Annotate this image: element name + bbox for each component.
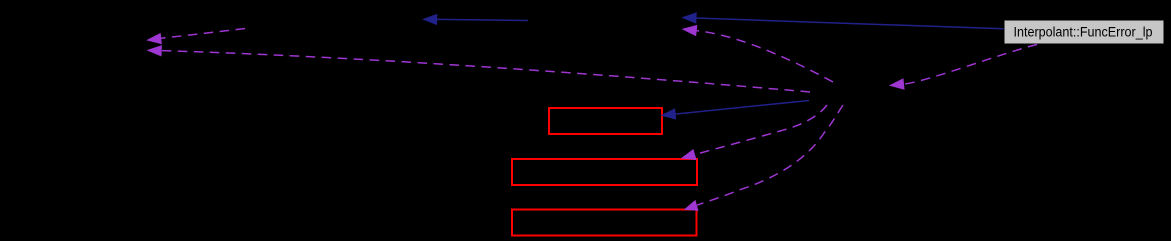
inheritance edge: hidden center node -> red box R1 (blue solid) <box>661 101 810 120</box>
usage edge: hidden center node -> hidden node2 (purple dashed) <box>682 25 833 82</box>
node: red box R3 (truncated class) <box>512 210 697 236</box>
inheritance edge: FuncError_lp -> hidden node2 (blue solid) <box>681 12 1003 29</box>
node: red box R2 (truncated class) <box>512 159 697 185</box>
svg-text:Interpolant::FuncError_lp: Interpolant::FuncError_lp <box>1014 25 1153 40</box>
node: Interpolant::FuncError_lp (grey current-class box) <box>1004 20 1164 44</box>
usage edge: hidden center node -> red box R3 (purple dashed) <box>684 105 843 211</box>
inheritance edge: hidden node2 -> hidden node1 (blue solid) <box>422 14 528 25</box>
usage edge: hidden center node -> hidden far-left node (purple dashed, long) <box>147 45 811 92</box>
node: red box R1 (truncated class) <box>549 108 662 134</box>
usage edge: hidden center node -> red box R2 (purple dashed) <box>681 105 827 160</box>
usage edge: FuncError_lp -> hidden center node (purple dashed) <box>889 45 1037 90</box>
usage edge: hidden node1 -> hidden far-left node (purple dashed) <box>146 29 245 45</box>
